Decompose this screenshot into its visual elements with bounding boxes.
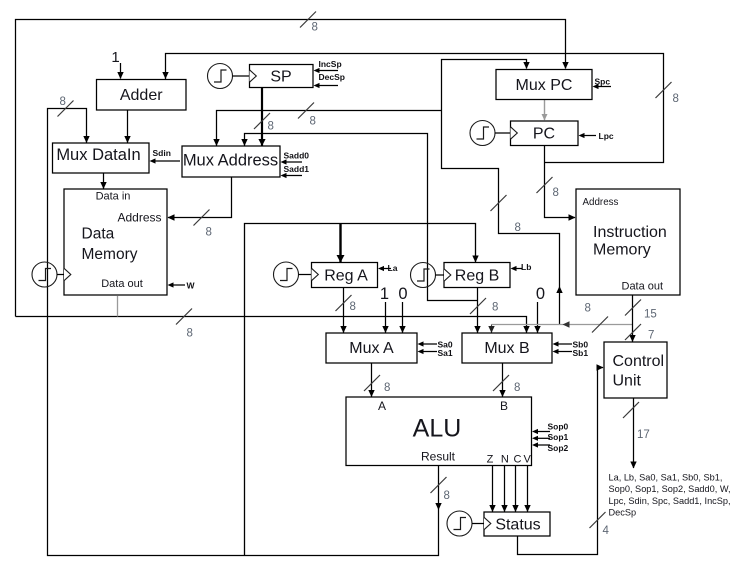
svg-text:DecSp: DecSp — [609, 507, 637, 517]
svg-text:Sb1: Sb1 — [573, 348, 589, 358]
svg-text:Sa1: Sa1 — [438, 348, 453, 358]
control label: Sb1 into Mux B — [553, 348, 589, 358]
control label: Sadd1 into Mux Address — [281, 164, 310, 178]
svg-text:Result: Result — [421, 450, 456, 464]
node: constant 1 into Mux A — [380, 285, 389, 333]
clock source: Status clock — [447, 511, 491, 536]
block: Mux DataIn — [53, 143, 150, 173]
svg-text:IncSp: IncSp — [319, 59, 342, 69]
svg-text:1: 1 — [111, 49, 119, 66]
svg-text:8: 8 — [553, 187, 559, 199]
clock source: PC clock — [470, 121, 517, 146]
svg-text:7: 7 — [648, 330, 654, 342]
svg-text:Address: Address — [583, 197, 619, 208]
svg-text:Sadd1: Sadd1 — [284, 164, 310, 174]
svg-text:B: B — [500, 399, 508, 413]
svg-text:Memory: Memory — [82, 246, 138, 263]
wire: PC output to Instruction Memory Address — [537, 146, 576, 221]
svg-text:Mux Address: Mux Address — [183, 152, 278, 170]
wire: ALU flag C to Status — [512, 466, 518, 513]
wire: Mux DataIn output to Data Memory Data in — [100, 173, 106, 189]
svg-text:8: 8 — [384, 382, 390, 394]
wire: Reg A output to Mux A input 1 — [336, 288, 356, 334]
clock source: SP clock — [208, 64, 257, 89]
svg-text:8: 8 — [585, 303, 591, 315]
control label: Sop1 into ALU — [532, 432, 569, 442]
svg-text:0: 0 — [398, 285, 407, 303]
clock source: Reg B clock — [411, 263, 451, 288]
control label: Sop0 into ALU — [532, 422, 569, 435]
control label: Sa0 into Mux A — [418, 340, 453, 350]
wire: SP output to Mux Address input 3 — [254, 88, 274, 147]
node: constant 1 into Adder — [111, 49, 123, 79]
wire: ALU flag Z to Status — [489, 466, 495, 513]
control label: La into Reg A — [378, 263, 398, 273]
svg-text:Control: Control — [613, 353, 665, 370]
wire: Reg B output to Mux B input 1 — [470, 288, 498, 334]
block: ALU — [346, 397, 532, 466]
svg-text:Mux A: Mux A — [349, 340, 394, 357]
svg-text:Lpc: Lpc — [599, 131, 614, 141]
block: Data Memory — [64, 189, 167, 295]
svg-text:Sop0, Sop1, Sop2, Sadd0, W,: Sop0, Sop1, Sop2, Sadd0, W, — [609, 484, 731, 494]
svg-text:Data out: Data out — [622, 281, 664, 293]
control label: Sb0 into Mux B — [553, 340, 589, 350]
wire: Control Unit output to control signal list — [623, 398, 650, 469]
svg-text:8: 8 — [268, 121, 274, 133]
wire: ALU Result write-back loop to Mux DataIn input 1 — [48, 96, 450, 556]
svg-text:Data: Data — [82, 225, 115, 242]
svg-text:8: 8 — [515, 222, 521, 234]
control label: Spc into Mux PC — [593, 77, 612, 90]
svg-text:Sop0: Sop0 — [548, 422, 569, 432]
svg-text:Data in: Data in — [96, 190, 131, 202]
svg-text:Sop1: Sop1 — [548, 432, 569, 442]
wire: gray stub from Data Memory Data out to bus — [117, 296, 119, 317]
svg-text:8: 8 — [206, 227, 212, 239]
control label: Sdin into Mux DataIn — [150, 148, 181, 164]
svg-text:17: 17 — [637, 429, 650, 441]
block: Status register — [484, 512, 550, 536]
svg-text:8: 8 — [514, 382, 520, 394]
svg-text:8: 8 — [492, 301, 498, 313]
svg-text:Sdin: Sdin — [153, 148, 171, 158]
svg-text:8: 8 — [312, 22, 318, 34]
control label: Lpc into PC — [579, 131, 614, 141]
wire: thick branch into Reg A input — [337, 224, 345, 263]
svg-text:15: 15 — [644, 309, 657, 321]
control label: W into Data Memory — [168, 281, 196, 291]
svg-text:8: 8 — [350, 301, 356, 313]
wire: Mux PC output to PC — [542, 100, 548, 121]
svg-text:8: 8 — [310, 116, 316, 128]
control label: DecSp into SP — [314, 72, 345, 88]
node: constant 0 into Mux A — [398, 285, 407, 333]
svg-text:DecSp: DecSp — [319, 72, 345, 82]
svg-text:La, Lb, Sa0, Sa1, Sb0, Sb1,: La, Lb, Sa0, Sa1, Sb0, Sb1, — [609, 473, 723, 483]
wire: Mux Address output to Data Memory Address — [168, 177, 232, 239]
block: Control Unit — [604, 342, 667, 398]
wire: PC feedback along top y=53 into Adder input 2 — [162, 54, 679, 163]
wire: gray operand bus from Instruction Memory data out — [488, 303, 632, 334]
block: Mux Address — [182, 146, 280, 177]
svg-text:0: 0 — [536, 285, 545, 303]
svg-text:Unit: Unit — [613, 373, 642, 390]
svg-text:Mux DataIn: Mux DataIn — [56, 146, 140, 164]
svg-text:N: N — [501, 454, 509, 466]
wire: Adder output to Mux DataIn input 2 — [124, 110, 130, 143]
clock source: Reg A clock — [274, 262, 319, 287]
block: Instruction Memory — [576, 189, 680, 295]
svg-text:Lpc, Sdin, Spc, Sadd1, IncSp,: Lpc, Sdin, Spc, Sadd1, IncSp, — [609, 496, 731, 506]
wire: operand path from gray bus up to Mux PC input 1 — [442, 60, 563, 325]
svg-text:ALU: ALU — [413, 414, 462, 442]
svg-text:W: W — [187, 281, 196, 291]
wire: Mux A output to ALU input A — [364, 363, 390, 397]
control label: Sadd0 into Mux Address — [281, 151, 310, 165]
svg-text:8: 8 — [60, 96, 66, 108]
svg-text:Status: Status — [495, 517, 540, 534]
svg-text:PC: PC — [533, 126, 555, 143]
wire: operand branch to Mux Address input 1 — [213, 103, 441, 147]
node: constant 0 into Mux B — [534, 285, 545, 333]
block: Mux PC — [496, 70, 592, 100]
svg-text:Reg A: Reg A — [324, 268, 368, 285]
block: SP register — [250, 65, 314, 88]
node: control signal list — [609, 473, 731, 518]
block: Mux B — [462, 333, 552, 363]
control label: IncSp into SP — [314, 59, 342, 73]
block: Mux A — [326, 333, 417, 363]
block: Adder — [97, 80, 187, 111]
wire: Status output feedback to Control Unit — [518, 364, 610, 554]
svg-text:Sop2: Sop2 — [548, 443, 569, 453]
wire: ALU flag N to Status — [501, 466, 507, 513]
wire: Reg B output via clock line up to Mux Address input 2 — [241, 134, 477, 301]
svg-text:Address: Address — [117, 211, 161, 225]
svg-text:Lb: Lb — [521, 262, 531, 272]
svg-text:SP: SP — [270, 69, 291, 86]
svg-text:Z: Z — [487, 454, 494, 466]
block: Reg B — [444, 263, 510, 288]
control label: Sop2 into ALU — [532, 442, 569, 453]
svg-text:V: V — [524, 454, 532, 466]
wire: Mux B output to ALU input B — [493, 363, 520, 397]
svg-text:Reg B: Reg B — [455, 268, 499, 285]
svg-text:C: C — [514, 454, 522, 466]
svg-text:Sadd0: Sadd0 — [284, 151, 310, 161]
block: Reg A — [312, 263, 378, 288]
svg-text:Instruction: Instruction — [593, 224, 667, 241]
svg-text:Adder: Adder — [120, 87, 163, 104]
block: PC register — [511, 121, 579, 146]
clock source: Data Memory clock — [32, 262, 71, 287]
control label: Lb into Reg B — [511, 262, 532, 272]
svg-text:8: 8 — [673, 93, 679, 105]
svg-text:Mux B: Mux B — [484, 340, 529, 357]
svg-text:8: 8 — [187, 328, 193, 340]
wire: write-back branch to Reg A and Reg B inputs — [245, 224, 479, 556]
wire: ALU flag V to Status — [524, 466, 530, 513]
control label: Sa1 into Mux A — [418, 348, 453, 358]
svg-text:8: 8 — [444, 490, 450, 502]
svg-text:4: 4 — [603, 525, 610, 537]
svg-text:Memory: Memory — [593, 242, 651, 259]
svg-text:Data out: Data out — [101, 278, 143, 290]
svg-text:Mux PC: Mux PC — [516, 77, 573, 94]
svg-text:1: 1 — [380, 285, 389, 303]
svg-text:A: A — [378, 399, 386, 413]
wire: Data Memory data-out horizontal bus into Mux B input 3 — [16, 309, 530, 340]
wire: Instruction Memory data out to Control Unit — [625, 295, 657, 342]
wire: left-edge feedback bus from Data Memory out to Mux PC input 2 — [16, 12, 569, 317]
